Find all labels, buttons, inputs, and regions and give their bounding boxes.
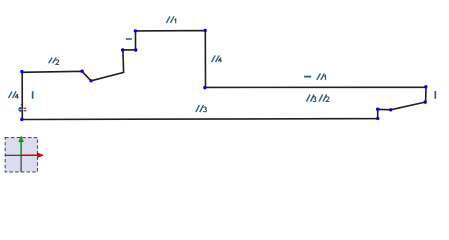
node G [134,48,137,51]
wire: sketch profile outline [22,31,426,120]
constraint label parallel-4 (left vertical) [9,91,17,98]
green Y axis arrow [20,141,22,155]
constraint label parallel-3 (bottom segment) [196,105,204,112]
node M [389,108,392,111]
node A (bottom-left vertex) [20,118,23,121]
red X axis arrow [21,154,38,156]
constraint label horizontal (short step segment) [126,38,132,40]
node N [376,108,379,111]
node K [424,85,427,88]
node J [203,86,206,89]
sketch-plane / origin icon [5,136,43,172]
node I [204,29,207,32]
constraint vertical bar (right short vertical segment) [435,91,437,99]
constraint labels horizontal + parallel-1 (long middle segment, above) [304,76,311,78]
constraint label parallel-2 (top-left segment) [49,58,57,64]
constraint vertical bar (left vertical segment) [32,91,34,98]
node D [89,79,92,82]
node O [376,117,379,120]
fixed-point icon near node on left vertical [18,104,26,112]
node H [134,29,137,32]
constraint labels parallel-3 parallel-2 (long middle segment, below) [307,95,315,102]
node B (top of left vertical) [20,70,23,73]
node C [80,70,83,73]
node F [121,48,124,51]
node L [424,100,427,103]
constraint label parallel-4 (right vertical of notch) [212,55,220,62]
constraint label parallel-1 (top long segment) [166,16,174,23]
